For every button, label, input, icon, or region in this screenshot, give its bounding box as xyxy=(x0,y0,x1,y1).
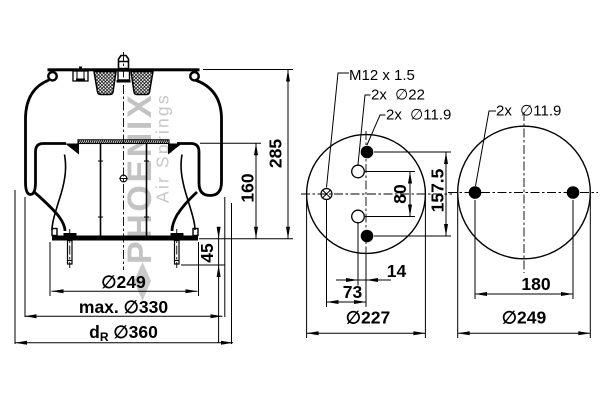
svg-text:M12 x 1.5: M12 x 1.5 xyxy=(349,67,415,84)
svg-text:73: 73 xyxy=(343,282,363,302)
svg-text:80: 80 xyxy=(390,184,410,204)
svg-text:∅249: ∅249 xyxy=(101,272,146,292)
svg-text:157.5: 157.5 xyxy=(428,168,448,212)
svg-text:max. ∅330: max. ∅330 xyxy=(79,297,168,317)
svg-text:180: 180 xyxy=(521,274,550,294)
svg-text:dR ∅360: dR ∅360 xyxy=(89,322,158,344)
svg-text:45: 45 xyxy=(197,243,217,263)
svg-text:2x ∅22: 2x ∅22 xyxy=(371,87,425,104)
svg-text:14: 14 xyxy=(387,261,407,281)
svg-text:∅227: ∅227 xyxy=(346,308,390,328)
svg-text:285: 285 xyxy=(266,139,286,168)
svg-text:2x ∅11.9: 2x ∅11.9 xyxy=(386,107,451,124)
svg-text:∅249: ∅249 xyxy=(502,308,547,328)
svg-text:2x ∅11.9: 2x ∅11.9 xyxy=(496,103,561,120)
svg-text:160: 160 xyxy=(238,173,258,202)
